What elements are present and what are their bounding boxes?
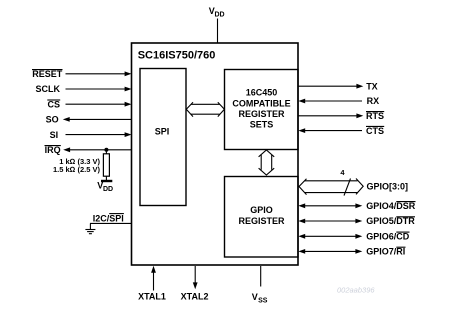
pin GPIO4/DSR (bidirectional) [366, 201, 416, 211]
svg-text:CTS: CTS [366, 126, 384, 136]
svg-text:SC16IS750/760: SC16IS750/760 [138, 50, 216, 62]
svg-text:XTAL2: XTAL2 [181, 291, 209, 301]
svg-text:DD: DD [103, 186, 113, 193]
wire GPIO5 [298, 219, 362, 224]
svg-text:DD: DD [215, 11, 225, 18]
bus GPIO[3:0] (4-bit, bidirectional) [299, 179, 363, 195]
wire TX [298, 84, 363, 89]
svg-text:REGISTER: REGISTER [238, 109, 285, 119]
pin CS (input) [47, 99, 60, 109]
svg-text:SS: SS [258, 298, 268, 305]
svg-text:RESET: RESET [32, 69, 63, 79]
svg-text:RX: RX [367, 96, 380, 106]
pin GPIO6/CD (bidirectional) [366, 232, 410, 242]
svg-text:GPIO4/DSR: GPIO4/DSR [366, 201, 416, 211]
wire CS [66, 102, 132, 107]
svg-text:GPIO[3:0]: GPIO[3:0] [367, 182, 409, 192]
wire SCLK [66, 87, 132, 92]
svg-text:IRQ: IRQ [45, 145, 61, 155]
pin XTAL1 (input) [138, 266, 166, 302]
wire I2C/SPI to ground [90, 222, 132, 224]
wire IRQ [63, 147, 131, 152]
svg-text:CS: CS [47, 99, 60, 109]
block 16C450 compatible register sets [225, 70, 299, 150]
pin RTS (output) [366, 111, 384, 121]
svg-text:COMPATIBLE: COMPATIBLE [232, 98, 290, 108]
ground [85, 223, 95, 233]
power VSS (ground pin) [252, 266, 268, 305]
pin GPIO5/DTR (bidirectional) [366, 216, 415, 226]
svg-text:SETS: SETS [250, 120, 274, 130]
svg-text:RTS: RTS [366, 111, 384, 121]
pin CTS (input) [366, 126, 384, 136]
svg-text:SO: SO [46, 115, 59, 125]
block GPIO register [225, 177, 299, 258]
pin I2C/SPI (select, tied low) [93, 213, 124, 223]
wire RX [298, 99, 362, 104]
bus arrow SPI to 16C450 (bidirectional) [186, 102, 224, 116]
wire RTS [298, 113, 363, 118]
svg-text:TX: TX [366, 81, 378, 91]
bus width slash [344, 179, 351, 196]
svg-text:GPIO5/DTR: GPIO5/DTR [366, 216, 415, 226]
svg-text:SPI: SPI [155, 126, 170, 136]
wire GPIO7 [298, 249, 362, 254]
svg-text:1.5 kΩ (2.5 V): 1.5 kΩ (2.5 V) [53, 165, 101, 174]
wire SO [63, 117, 132, 122]
pin GPIO7/RI (bidirectional) [366, 247, 405, 257]
svg-text:GPIO7/RI: GPIO7/RI [366, 247, 405, 257]
wire GPIO6 [298, 234, 362, 239]
svg-text:002aab396: 002aab396 [337, 286, 375, 295]
pin XTAL2 (output) [181, 266, 209, 301]
wire GPIO4 [298, 203, 362, 208]
node junction IRQ/pull-up [104, 148, 108, 152]
wire CTS [298, 128, 362, 133]
block U1 SC16IS750/760 outline [132, 43, 299, 265]
resistor R pull-up 1 kOhm (3.3 V) / 1.5 kOhm (2.5 V) [53, 150, 109, 176]
power VDD (pull-up) [97, 176, 113, 193]
wire RESET [66, 71, 132, 76]
bus arrow 16C450 to GPIO register (bidirectional) [259, 150, 275, 175]
pin IRQ (output) [45, 145, 61, 155]
pin RESET (input) [32, 69, 63, 79]
svg-text:SI: SI [50, 130, 59, 140]
wire SI [66, 132, 132, 137]
svg-text:I2C/SPI: I2C/SPI [93, 213, 124, 223]
power VDD (top) [209, 6, 225, 19]
svg-text:XTAL1: XTAL1 [138, 291, 166, 301]
svg-text:GPIO: GPIO [250, 205, 273, 215]
svg-text:V: V [252, 292, 258, 302]
wire VDD to block [217, 19, 219, 44]
svg-text:SCLK: SCLK [36, 84, 61, 94]
svg-text:16C450: 16C450 [246, 88, 278, 98]
block SPI [140, 69, 186, 206]
svg-text:REGISTER: REGISTER [238, 216, 285, 226]
svg-text:GPIO6/CD: GPIO6/CD [366, 232, 410, 242]
